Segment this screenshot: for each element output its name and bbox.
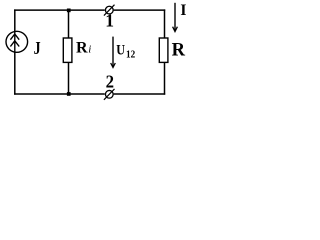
node 1 bbox=[104, 5, 115, 16]
svg-text:i: i bbox=[88, 44, 91, 56]
node 2 bbox=[104, 89, 115, 100]
wire Ri lower bbox=[68, 62, 70, 94]
junction dot bottom bbox=[67, 92, 71, 96]
wire left rail upper bbox=[14, 9, 16, 31]
wire right rail upper bbox=[164, 9, 166, 38]
resistor R bbox=[159, 38, 168, 62]
wire bottom-right segment bbox=[114, 93, 166, 95]
wire bottom-left segment bbox=[14, 93, 105, 95]
svg-text:I: I bbox=[180, 2, 186, 19]
wire top-right segment bbox=[114, 9, 166, 11]
wire right rail lower bbox=[164, 63, 166, 95]
wire left rail lower bbox=[14, 53, 16, 95]
svg-text:J: J bbox=[34, 38, 41, 58]
resistor Ri bbox=[63, 38, 72, 62]
svg-text:2: 2 bbox=[106, 72, 114, 92]
current source J bbox=[6, 31, 28, 53]
svg-text:R: R bbox=[172, 41, 186, 61]
junction dot top bbox=[67, 9, 71, 13]
svg-text:1: 1 bbox=[105, 11, 114, 31]
arrow U12 bbox=[111, 37, 116, 68]
svg-text:U: U bbox=[116, 42, 125, 58]
svg-text:R: R bbox=[76, 39, 88, 56]
wire Ri upper bbox=[68, 10, 70, 38]
svg-text:12: 12 bbox=[126, 49, 135, 60]
wire top-left segment bbox=[14, 9, 105, 11]
arrow I bbox=[173, 3, 178, 32]
